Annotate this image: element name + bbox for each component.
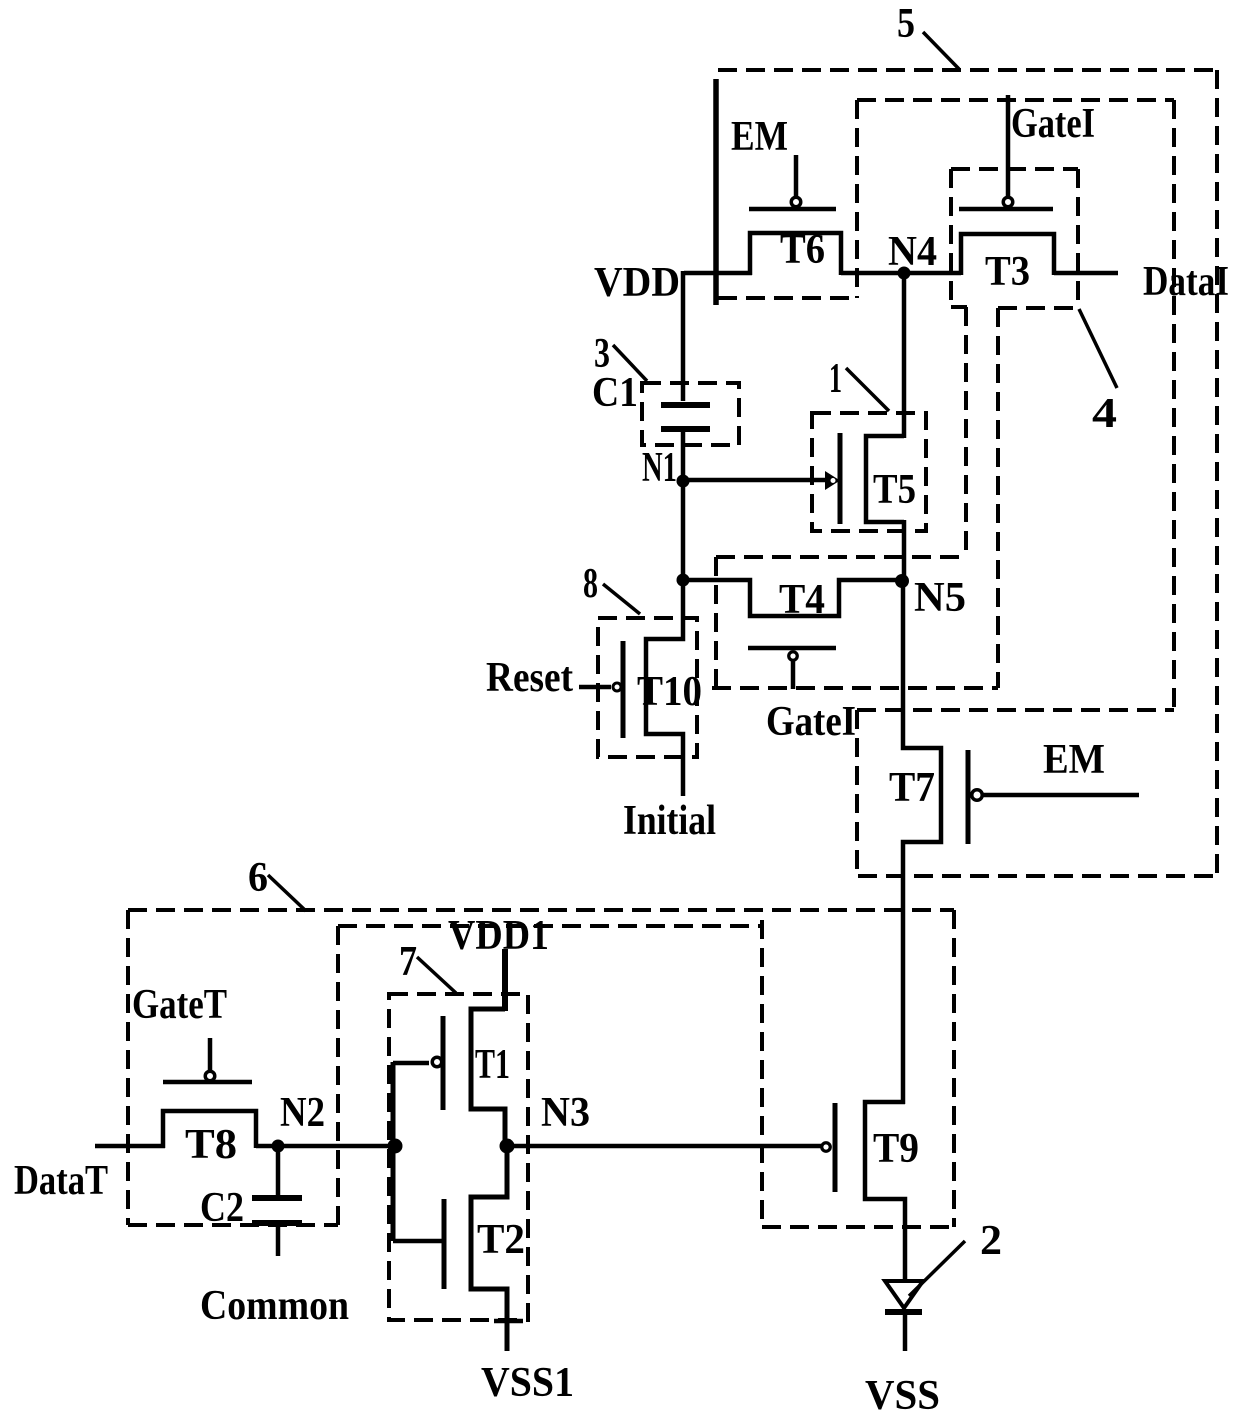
transistor T5 channel — [866, 436, 904, 522]
wire T3 to DataI — [1054, 271, 1118, 276]
dashed box around T6: bottom edge — [718, 296, 858, 300]
dashed box 7 around T1 T2 — [389, 994, 528, 1320]
wire T6 to N4 to T3 — [841, 271, 961, 276]
transistor T3 gate bar — [959, 207, 1053, 212]
transistor T5 gate arrow — [825, 471, 840, 490]
capacitor C1 top plate — [661, 402, 710, 408]
dashed box 8 around T10 — [598, 618, 697, 757]
dashed box around T3: bottom edge right part — [998, 306, 1078, 310]
svg-text:6: 6 — [248, 855, 268, 901]
dashed box around T3: bottom edge left part — [951, 305, 967, 309]
transistor T10 channel — [646, 580, 683, 796]
svg-text:T6: T6 — [780, 227, 825, 273]
wire VDD horizontal to T6 — [684, 271, 752, 276]
svg-text:DataT: DataT — [14, 1158, 108, 1204]
transistor T1 gate lead — [393, 1061, 429, 1066]
dashed box 5 bottom edge — [858, 874, 1217, 878]
junction dot at inverter input — [388, 1139, 403, 1154]
transistor T5 gate bar — [838, 433, 843, 524]
wire VDD1 down — [502, 949, 508, 1011]
wire T8 to N2 to inverter input — [256, 1144, 395, 1149]
svg-text:DataI: DataI — [1143, 259, 1229, 305]
svg-text:T3: T3 — [985, 249, 1030, 295]
dashed sub-box right edge x=338 — [336, 926, 340, 1225]
svg-text:N3: N3 — [541, 1090, 590, 1136]
svg-text:N5: N5 — [914, 575, 966, 621]
svg-text:GateI: GateI — [1011, 101, 1095, 147]
OLED diode 2 cathode bar — [885, 1309, 922, 1315]
junction dot above T10 — [677, 574, 690, 587]
dashed inner box 4 outer: right edge — [1172, 100, 1176, 710]
svg-text:8: 8 — [583, 561, 598, 607]
wire DataT to T8 — [95, 1144, 165, 1149]
wire N2 down to C2 — [276, 1146, 281, 1196]
transistor T3 channel — [961, 234, 1054, 275]
transistor T3 gate circle — [1003, 197, 1013, 207]
inverter input rail — [391, 1062, 396, 1241]
svg-text:GateT: GateT — [132, 982, 227, 1028]
dashed box 5 top edge — [718, 68, 1217, 72]
dashed box 4 channel left vertical — [964, 307, 968, 557]
dashed inner box 4 outer: top edge — [857, 98, 1174, 102]
dashed box around T4: top edge — [716, 555, 966, 559]
dashed box 6 left edge — [126, 910, 130, 1225]
leader line for label 2 — [909, 1241, 965, 1296]
svg-text:T9: T9 — [873, 1126, 919, 1172]
wire VDD down to C1 top plate — [681, 271, 686, 401]
wire N1 to T5 gate — [683, 478, 827, 483]
leader line for label 8 — [603, 584, 640, 614]
transistor T9 channel — [865, 1102, 905, 1281]
dashed box 1 around T5 — [812, 413, 926, 531]
svg-text:VDD: VDD — [594, 260, 680, 306]
svg-text:Common: Common — [200, 1283, 349, 1329]
svg-text:VSS: VSS — [865, 1373, 940, 1419]
node N2 dot — [272, 1140, 285, 1153]
svg-text:VDD1: VDD1 — [448, 913, 549, 959]
transistor T8 gate circle — [205, 1071, 215, 1081]
dashed box around T7: left edge — [855, 710, 859, 876]
dashed box around T3: left edge — [949, 169, 953, 307]
dashed box around T3: top edge — [951, 167, 1078, 171]
svg-text:N2: N2 — [280, 1090, 325, 1136]
transistor T10 gate bar — [621, 641, 626, 738]
transistor T8 channel — [163, 1111, 256, 1148]
svg-text:5: 5 — [897, 1, 915, 47]
dashed box around T6: right edge — [855, 100, 859, 298]
OLED diode 2 triangle — [885, 1281, 923, 1308]
transistor T3 gate lead — [1006, 95, 1011, 197]
svg-text:EM: EM — [731, 114, 788, 160]
wire C1 bottom to node N1 and junction — [681, 429, 686, 583]
leader line for label 7 — [417, 957, 456, 993]
transistor T1 channel — [471, 1009, 505, 1148]
transistor T9 gate bar — [833, 1103, 838, 1192]
wire N4 down to T5 — [902, 273, 907, 438]
transistor T7 gate lead to EM — [983, 793, 1139, 798]
wire T5 down to N5 — [902, 520, 907, 583]
transistor T6 channel — [750, 233, 841, 275]
wire tick at T2 crossing of box 7 bottom — [494, 1319, 523, 1324]
wire N3 to T9 gate — [507, 1144, 821, 1149]
dashed inner top edge y=926 — [338, 924, 764, 928]
dashed box around T9: left edge — [760, 920, 764, 1227]
svg-text:T4: T4 — [779, 577, 825, 623]
node N3 dot — [500, 1139, 515, 1154]
svg-text:Reset: Reset — [486, 655, 573, 701]
transistor T10 gate circle — [613, 683, 621, 691]
transistor T1 gate bar — [441, 1016, 446, 1110]
svg-text:T10: T10 — [637, 669, 702, 715]
transistor T6 gate bar — [749, 207, 836, 212]
leader line for label 4 — [1079, 309, 1117, 388]
svg-text:T5: T5 — [873, 467, 916, 513]
svg-text:T8: T8 — [185, 1122, 237, 1168]
svg-text:4: 4 — [1092, 391, 1117, 437]
dashed box 6 bottom-left edge — [128, 1223, 338, 1227]
svg-text:Initial: Initial — [623, 798, 716, 844]
svg-text:T2: T2 — [477, 1217, 525, 1263]
transistor T4 gate circle — [789, 652, 798, 661]
leader line for label 1 — [846, 368, 889, 411]
svg-text:GateI: GateI — [766, 699, 856, 745]
svg-text:N1: N1 — [642, 445, 677, 491]
node N1 dot — [677, 475, 690, 488]
dashed box 5 right edge — [1215, 70, 1219, 876]
node N5 dot — [895, 574, 909, 588]
wire VDD vertical bus — [713, 79, 719, 305]
transistor T9 gate circle — [822, 1143, 831, 1152]
transistor T4 channel — [683, 580, 904, 616]
capacitor C1 bottom plate — [661, 426, 710, 432]
transistor T7 gate circle — [972, 790, 983, 801]
svg-text:7: 7 — [399, 939, 417, 985]
dashed box around T4: left edge — [714, 557, 718, 688]
svg-text:2: 2 — [980, 1218, 1002, 1264]
transistor T2 gate lead — [393, 1239, 443, 1244]
dashed inner box 4 outer: bottom edge — [857, 708, 1174, 712]
transistor T6 gate circle — [791, 197, 801, 207]
transistor T4 gate bar — [748, 646, 836, 651]
svg-text:C2: C2 — [200, 1185, 244, 1231]
dashed box around T9: bottom edge — [762, 1225, 954, 1229]
transistor T2 channel — [471, 1146, 507, 1351]
transistor T7 channel — [903, 580, 941, 1104]
svg-text:EM: EM — [1043, 737, 1105, 783]
transistor T8 gate lead — [208, 1038, 213, 1071]
transistor T1 gate circle — [432, 1057, 442, 1067]
svg-text:N4: N4 — [888, 229, 937, 275]
capacitor C2 bottom plate — [252, 1220, 302, 1226]
dashed box around T3: right edge — [1076, 169, 1080, 307]
transistor T4 gate lead — [791, 660, 796, 689]
transistor T10 gate lead from Reset — [579, 685, 611, 690]
transistor T6 gate lead — [794, 155, 799, 197]
transistor T7 gate bar — [966, 750, 971, 844]
svg-text:C1: C1 — [592, 370, 638, 416]
wire OLED to VSS — [903, 1310, 908, 1351]
svg-text:1: 1 — [829, 356, 842, 402]
svg-text:T7: T7 — [889, 765, 935, 811]
transistor T8 gate bar — [163, 1080, 252, 1085]
node N4 dot — [898, 267, 911, 280]
wire C2 bottom to Common — [276, 1224, 281, 1256]
svg-text:T1: T1 — [475, 1042, 510, 1088]
dashed box around T9: right edge — [952, 910, 956, 1227]
dashed box 4 channel right vertical — [996, 308, 1000, 688]
leader line for label 3 — [613, 345, 647, 381]
leader line for label 6 — [268, 875, 306, 911]
transistor T2 gate bar — [442, 1199, 447, 1289]
svg-text:VSS1: VSS1 — [481, 1360, 574, 1406]
dashed box 6 top edge — [128, 908, 954, 912]
dashed box around C1 — [642, 383, 739, 445]
capacitor C2 top plate — [252, 1195, 302, 1201]
dashed box around T4: bottom edge — [712, 686, 998, 690]
leader line for label 5 — [923, 32, 959, 69]
